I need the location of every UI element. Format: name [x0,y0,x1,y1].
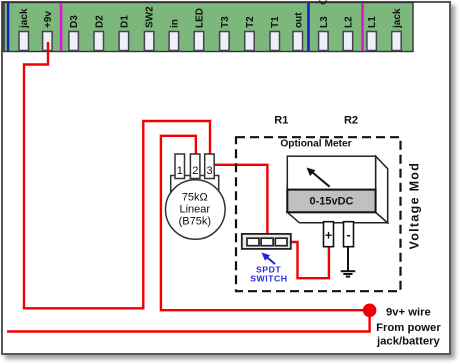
svg-text:D1: D1 [119,15,130,28]
svg-text:T1: T1 [270,16,281,28]
svg-text:LED: LED [195,8,206,28]
svg-text:(B75k): (B75k) [179,215,211,227]
svg-text:R2: R2 [344,115,358,127]
svg-text:L2: L2 [344,16,355,28]
svg-text:L3: L3 [319,16,330,28]
svg-text:jack: jack [392,8,403,29]
svg-text:L1: L1 [367,16,378,28]
svg-text:T2: T2 [245,16,256,28]
svg-text:From power: From power [376,322,441,334]
svg-text:R1: R1 [274,115,288,127]
svg-text:D2: D2 [94,15,105,28]
svg-text:-: - [346,227,350,242]
svg-text:3: 3 [207,165,213,177]
svg-text:SW2: SW2 [145,6,156,28]
svg-text:+9v: +9v [43,11,54,28]
svg-text:+: + [325,229,332,243]
svg-text:T3: T3 [220,16,231,28]
svg-text:9v+ wire: 9v+ wire [386,307,431,319]
svg-text:2: 2 [192,165,198,177]
svg-text:Linear: Linear [180,204,211,216]
svg-text:SWITCH: SWITCH [250,274,287,284]
svg-text:1: 1 [177,165,183,177]
svg-text:in: in [169,19,180,28]
svg-text:out: out [293,12,304,28]
svg-text:Optional Meter: Optional Meter [280,139,351,150]
svg-text:Voltage Mod: Voltage Mod [407,162,421,250]
svg-text:D3: D3 [69,15,80,28]
svg-text:jack: jack [19,8,30,29]
svg-text:0-15vDC: 0-15vDC [309,196,353,208]
svg-text:75kΩ: 75kΩ [182,192,208,204]
svg-text:jack/battery: jack/battery [376,335,441,347]
